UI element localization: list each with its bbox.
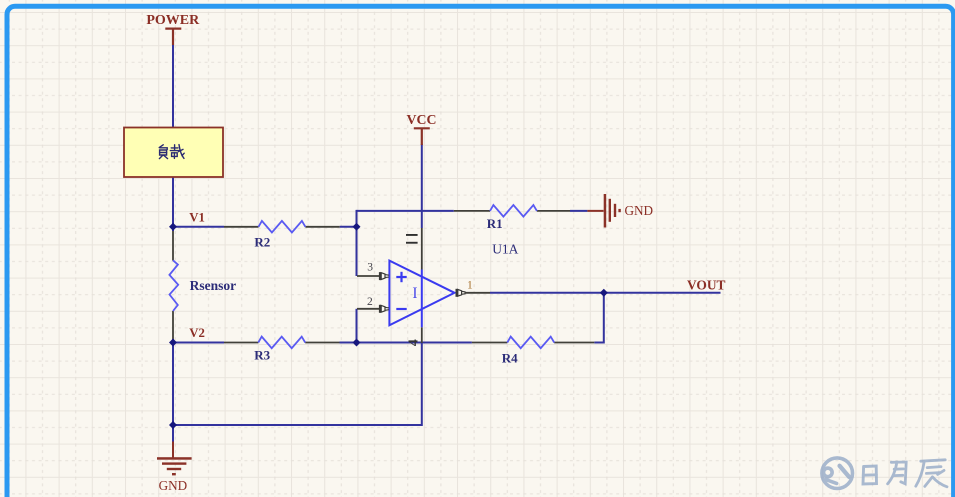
svg-text:I: I xyxy=(412,285,417,302)
svg-text:GND: GND xyxy=(159,478,188,493)
svg-text:VOUT: VOUT xyxy=(687,278,725,293)
svg-text:3: 3 xyxy=(367,261,373,273)
svg-text:R3: R3 xyxy=(254,348,270,363)
svg-text:V1: V1 xyxy=(189,210,205,224)
svg-text:GND: GND xyxy=(625,203,654,218)
svg-text:V2: V2 xyxy=(189,326,205,340)
svg-text:VCC: VCC xyxy=(407,112,437,127)
svg-text:1: 1 xyxy=(467,280,473,292)
svg-text:R4: R4 xyxy=(502,350,518,365)
svg-text:U1A: U1A xyxy=(492,242,518,257)
svg-text:POWER: POWER xyxy=(146,13,200,28)
svg-text:2: 2 xyxy=(367,296,373,308)
svg-text:R1: R1 xyxy=(487,216,503,231)
svg-text:Rsensor: Rsensor xyxy=(190,278,237,293)
svg-text:R2: R2 xyxy=(254,234,270,249)
svg-text:4: 4 xyxy=(407,339,422,346)
